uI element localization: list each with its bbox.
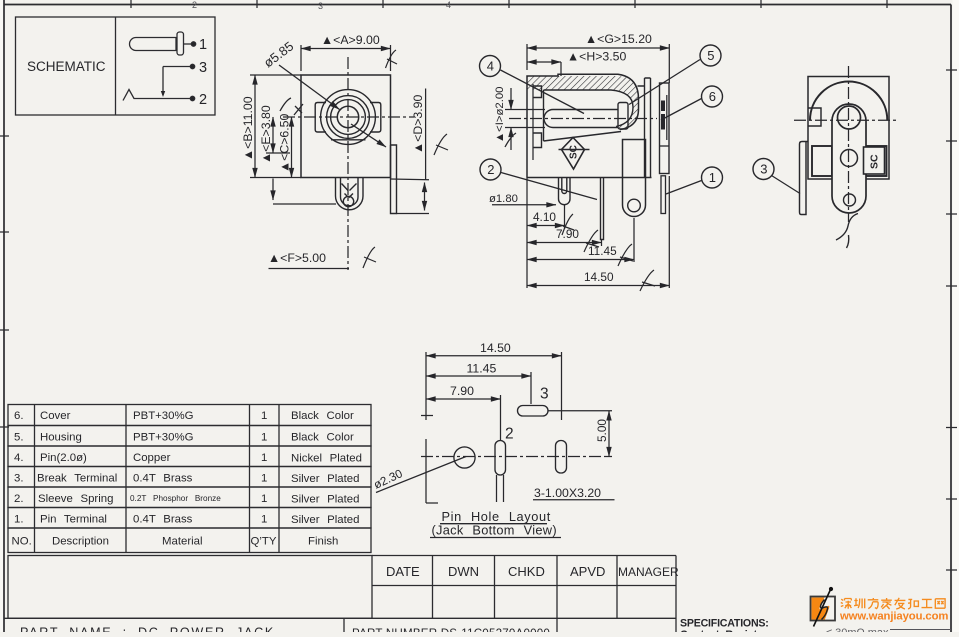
back view dome bbox=[810, 82, 887, 121]
zone ticks right edge bbox=[946, 70, 957, 570]
section sleeve spring leg bbox=[601, 178, 604, 240]
back view centerline horizontal bbox=[794, 119, 898, 121]
zone ticks top edge bbox=[131, 0, 887, 8]
front view body bbox=[301, 75, 391, 178]
dim D 3.90 bbox=[351, 89, 448, 214]
svg-text:1: 1 bbox=[261, 514, 267, 526]
svg-text:6: 6 bbox=[709, 89, 716, 104]
front view lower reference lines bbox=[272, 179, 274, 201]
sheet margin light areas bbox=[953, 0, 959, 632]
section pin terminal leg bbox=[559, 178, 571, 205]
section back wall bbox=[638, 78, 651, 178]
back view left notch bbox=[808, 108, 821, 126]
parts table row 3 bbox=[8, 467, 371, 488]
back view oblong holes bbox=[838, 106, 861, 206]
svg-text:▲<H>3.50: ▲<H>3.50 bbox=[567, 50, 627, 64]
front view pin tip chamfer bbox=[342, 184, 357, 191]
back view break squiggle bbox=[836, 214, 858, 249]
dim phi5.85 label bbox=[261, 38, 340, 109]
front view side ear right bbox=[370, 103, 381, 133]
svg-text:0.4T Brass: 0.4T Brass bbox=[133, 514, 193, 526]
svg-text:Black Color: Black Color bbox=[291, 410, 354, 422]
dim phi1.80 bbox=[489, 193, 556, 205]
svg-text:Silver Plated: Silver Plated bbox=[291, 473, 359, 485]
svg-text:3: 3 bbox=[760, 162, 767, 177]
svg-text:PBT+30%G: PBT+30%G bbox=[133, 410, 194, 422]
front view centerline vertical bbox=[347, 57, 349, 270]
svg-text:Cover: Cover bbox=[40, 410, 71, 422]
dim 4.10 bbox=[527, 205, 574, 235]
parts table row 4 bbox=[8, 446, 371, 467]
dim B 11.00 bbox=[241, 75, 301, 178]
dim 11.45 layout bbox=[426, 362, 531, 405]
svg-text:DATE: DATE bbox=[386, 564, 420, 579]
back view side leg bbox=[800, 141, 809, 215]
svg-text:1: 1 bbox=[261, 493, 267, 505]
svg-text:Q’TY: Q’TY bbox=[251, 536, 277, 548]
zone numbers top bbox=[192, 0, 451, 11]
watermark logo square bbox=[811, 587, 836, 627]
front view barrel circles bbox=[321, 90, 376, 145]
svg-text:▲<D>3.90: ▲<D>3.90 bbox=[411, 94, 425, 154]
svg-text:1: 1 bbox=[199, 37, 207, 53]
specifications text bbox=[680, 618, 951, 637]
svg-text:7.90: 7.90 bbox=[450, 384, 474, 398]
dim 5.00 layout bbox=[548, 411, 612, 457]
slot right bbox=[556, 441, 567, 474]
dim phi2.30 bbox=[371, 457, 466, 493]
svg-text:Description: Description bbox=[52, 536, 109, 548]
svg-text:▲<B>11.00: ▲<B>11.00 bbox=[241, 96, 255, 161]
section right leg bbox=[661, 176, 666, 214]
front view centerline horizontal bbox=[283, 116, 414, 118]
back view square body bbox=[808, 77, 889, 180]
parts table row 2 bbox=[8, 487, 371, 508]
front view snout inner bbox=[341, 178, 359, 206]
svg-text:Sleeve Spring: Sleeve Spring bbox=[38, 493, 113, 505]
svg-text:1: 1 bbox=[261, 410, 267, 422]
schematic pin3 line bbox=[161, 64, 195, 97]
back view center oblong terminal bbox=[832, 104, 866, 213]
svg-text:PART NAME : DC POWER JACK: PART NAME : DC POWER JACK bbox=[20, 626, 275, 633]
parts table row 1 bbox=[8, 508, 371, 529]
section S diamond emblem bbox=[559, 138, 590, 170]
svg-text:14.50: 14.50 bbox=[480, 341, 511, 355]
back view centerline vertical bbox=[848, 66, 850, 222]
front view snout outer bbox=[336, 178, 364, 210]
svg-text:Copper: Copper bbox=[133, 452, 171, 464]
dim F 5.00 bbox=[268, 247, 376, 269]
svg-text:▲<F>5.00: ▲<F>5.00 bbox=[268, 251, 326, 265]
dim A 9.00 bbox=[301, 33, 397, 71]
parts table header row bbox=[8, 528, 371, 553]
svg-text:2.: 2. bbox=[14, 493, 24, 505]
svg-text:Finish: Finish bbox=[308, 536, 338, 548]
dim 14.50 layout bbox=[426, 341, 562, 420]
section back plate bbox=[660, 83, 670, 174]
back view left block bbox=[812, 146, 832, 176]
svg-text:Silver Plated: Silver Plated bbox=[291, 514, 359, 526]
zone ticks left edge bbox=[0, 136, 9, 427]
callout 6 bbox=[661, 86, 723, 120]
svg-text:≤ 30mΩ max: ≤ 30mΩ max bbox=[826, 627, 889, 632]
svg-text:ø1.80: ø1.80 bbox=[489, 193, 518, 205]
parts table row 5 bbox=[8, 426, 371, 447]
schematic pin2 line with spring contact bbox=[123, 90, 195, 101]
svg-text:▲<C>6.50: ▲<C>6.50 bbox=[278, 113, 292, 173]
dim H 3.50 bbox=[527, 50, 627, 77]
svg-text:Housing: Housing bbox=[40, 432, 82, 444]
svg-text:4.: 4. bbox=[14, 452, 24, 464]
svg-text:14.50: 14.50 bbox=[584, 270, 614, 284]
svg-text:CHKD: CHKD bbox=[508, 564, 545, 579]
pin hole layout caption bbox=[432, 509, 557, 538]
svg-text:Black Color: Black Color bbox=[291, 432, 354, 444]
callout 3 bbox=[753, 159, 800, 194]
caption underlines bbox=[430, 524, 561, 538]
svg-text:3: 3 bbox=[540, 386, 549, 403]
svg-text:3: 3 bbox=[199, 60, 207, 76]
schematic pin numbers bbox=[199, 37, 207, 108]
svg-text:▲<G>15.20: ▲<G>15.20 bbox=[585, 32, 652, 46]
slot 3 bbox=[518, 406, 549, 417]
pin layout left outline bbox=[421, 352, 438, 503]
watermark chinese characters bbox=[841, 598, 945, 609]
dim E 3.80 bbox=[259, 98, 291, 164]
svg-text:Pin Terminal: Pin Terminal bbox=[40, 514, 107, 526]
svg-text:5.00: 5.00 bbox=[595, 419, 609, 442]
svg-text:5: 5 bbox=[707, 48, 714, 63]
svg-text:2: 2 bbox=[199, 92, 207, 108]
svg-text:Nickel Plated: Nickel Plated bbox=[291, 453, 362, 465]
dim 14.50 bbox=[527, 176, 670, 291]
schematic title text bbox=[27, 59, 106, 74]
section cover inner line bbox=[544, 90, 634, 127]
schematic box bbox=[16, 17, 216, 115]
callout 4 bbox=[480, 56, 585, 114]
front view right leg bbox=[391, 145, 397, 214]
svg-text:DWN: DWN bbox=[448, 564, 479, 579]
dim I phi2.00 bbox=[494, 87, 545, 150]
svg-text:5.: 5. bbox=[14, 432, 24, 444]
svg-text:6.: 6. bbox=[14, 410, 24, 422]
svg-text:1: 1 bbox=[261, 452, 267, 464]
dim C 6.50 bbox=[278, 104, 304, 178]
svg-text:3.: 3. bbox=[14, 473, 24, 485]
schematic pin1 plug symbol bbox=[130, 32, 196, 55]
svg-text:▲<E>3.80: ▲<E>3.80 bbox=[259, 105, 273, 164]
front view pin tip circle bbox=[343, 196, 353, 206]
dim 7.90 layout bbox=[426, 384, 501, 440]
svg-text:3: 3 bbox=[318, 1, 323, 11]
svg-text:(Jack Bottom View): (Jack Bottom View) bbox=[432, 523, 557, 538]
svg-text:PART NUMBER DS-11C05270A0000: PART NUMBER DS-11C05270A0000 bbox=[352, 627, 550, 632]
callout 5 bbox=[629, 45, 721, 105]
svg-text:SC: SC bbox=[569, 145, 580, 159]
section cavity bottom slant bbox=[544, 132, 622, 142]
svg-text:4: 4 bbox=[446, 0, 451, 10]
svg-text:Pin(2.0ø): Pin(2.0ø) bbox=[40, 452, 87, 464]
section cover hatch fill bbox=[527, 76, 639, 130]
layout centerline bbox=[421, 456, 607, 458]
svg-text:4: 4 bbox=[487, 59, 494, 74]
title block header cells bbox=[4, 556, 679, 633]
svg-text:1.: 1. bbox=[14, 514, 24, 526]
callout 1 bbox=[666, 167, 723, 194]
dim G 15.20 bbox=[527, 32, 670, 83]
svg-text:2: 2 bbox=[505, 426, 514, 443]
svg-text:3-1.00X3.20: 3-1.00X3.20 bbox=[534, 486, 601, 500]
svg-text:MANAGER: MANAGER bbox=[618, 565, 679, 579]
svg-text:SC: SC bbox=[869, 154, 881, 169]
section left flange bbox=[533, 84, 544, 160]
svg-text:www.wanjiayou.com: www.wanjiayou.com bbox=[839, 611, 948, 623]
title block left cell bbox=[8, 556, 372, 619]
svg-text:1: 1 bbox=[261, 473, 267, 485]
svg-text:7.90: 7.90 bbox=[556, 227, 579, 241]
part name row bbox=[20, 618, 557, 637]
section sleeve contact detail bbox=[663, 95, 667, 140]
parts table row 6 bbox=[8, 405, 371, 426]
dim 7.90 bbox=[527, 227, 602, 252]
front view side ear left bbox=[315, 103, 326, 133]
front view barrel bottom chord bbox=[331, 139, 366, 141]
svg-text:▲<I>ø2.00: ▲<I>ø2.00 bbox=[494, 87, 506, 143]
svg-text:11.45: 11.45 bbox=[588, 244, 617, 258]
svg-text:1: 1 bbox=[709, 170, 716, 185]
dim 11.45 bbox=[527, 218, 634, 266]
section centerline bbox=[509, 118, 657, 120]
svg-text:2: 2 bbox=[192, 0, 197, 10]
back view right block bbox=[866, 146, 887, 176]
slot 2 bbox=[495, 441, 506, 476]
pin hole circle bbox=[454, 447, 475, 468]
svg-text:Material: Material bbox=[162, 536, 203, 548]
callout 2 bbox=[480, 159, 597, 200]
section center pin bbox=[544, 103, 628, 130]
svg-text:SCHEMATIC: SCHEMATIC bbox=[27, 59, 106, 74]
section break terminal bbox=[623, 140, 646, 217]
svg-text:0.4T Brass: 0.4T Brass bbox=[133, 473, 193, 485]
svg-text:▲<A>9.00: ▲<A>9.00 bbox=[321, 33, 380, 47]
svg-text:APVD: APVD bbox=[570, 564, 605, 579]
dim 3-1.00X3.20 bbox=[497, 475, 615, 502]
svg-text:1: 1 bbox=[261, 432, 267, 444]
svg-text:PBT+30%G: PBT+30%G bbox=[133, 432, 194, 444]
svg-text:SPECIFICATIONS:: SPECIFICATIONS: bbox=[680, 618, 769, 630]
svg-text:2: 2 bbox=[487, 162, 494, 177]
svg-text:0.2T Phosphor Bronze: 0.2T Phosphor Bronze bbox=[130, 494, 221, 503]
svg-text:4.10: 4.10 bbox=[533, 210, 556, 224]
svg-text:Break Terminal: Break Terminal bbox=[37, 473, 117, 485]
svg-text:NO.: NO. bbox=[12, 536, 32, 548]
svg-text:11.45: 11.45 bbox=[467, 362, 497, 376]
section body outline bbox=[527, 74, 652, 177]
back view SC box bbox=[864, 147, 885, 174]
svg-text:Silver Plated: Silver Plated bbox=[291, 494, 359, 506]
